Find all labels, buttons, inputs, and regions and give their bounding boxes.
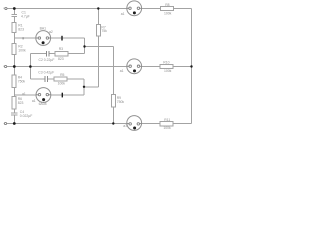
svg-text:R5: R5 xyxy=(60,73,64,77)
svg-text:4.7µF: 4.7µF xyxy=(21,15,30,19)
svg-text:a1: a1 xyxy=(121,12,125,16)
svg-text:0.022µF: 0.022µF xyxy=(20,114,33,118)
svg-text:a1: a1 xyxy=(123,124,127,128)
svg-text:a2: a2 xyxy=(49,30,53,34)
svg-text:750k: 750k xyxy=(18,80,26,84)
svg-text:100k: 100k xyxy=(163,126,171,130)
svg-text:R11: R11 xyxy=(164,118,170,122)
svg-text:100k: 100k xyxy=(164,69,172,73)
svg-text:100k: 100k xyxy=(164,12,172,16)
svg-text:R10: R10 xyxy=(163,61,169,65)
svg-text:823: 823 xyxy=(18,28,24,32)
svg-text:+: + xyxy=(3,7,5,11)
svg-text:a1: a1 xyxy=(22,92,26,96)
svg-text:-: - xyxy=(3,122,4,126)
svg-text:R8: R8 xyxy=(165,3,169,7)
svg-text:C3 0.42µF: C3 0.42µF xyxy=(38,70,54,74)
svg-text:823: 823 xyxy=(18,101,24,105)
svg-text:C2 0.22µF: C2 0.22µF xyxy=(39,58,55,62)
svg-text:100k: 100k xyxy=(18,49,26,53)
svg-text:75k: 75k xyxy=(101,29,107,33)
svg-text:a1: a1 xyxy=(120,69,124,73)
svg-text:750k: 750k xyxy=(117,100,125,104)
svg-text:+: + xyxy=(3,65,5,69)
svg-text:BA1: BA1 xyxy=(40,27,47,31)
svg-text:100k: 100k xyxy=(58,82,66,86)
svg-text:R3: R3 xyxy=(59,47,63,51)
svg-text:823: 823 xyxy=(58,57,64,61)
svg-text:6A08: 6A08 xyxy=(39,102,47,106)
svg-text:a1: a1 xyxy=(32,99,36,103)
